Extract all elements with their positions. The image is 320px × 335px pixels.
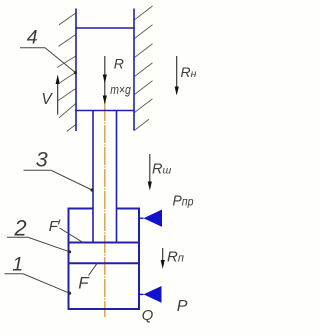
pressure arrow Pпр [139,210,162,227]
cylinder 1 left wall [68,208,70,311]
rod 3 left edge [92,111,94,243]
cylinder 1 right wall [138,208,140,311]
svg-text:Rш: Rш [152,161,171,177]
cylinder 4 top line [75,27,135,29]
wall hatching left [57,13,76,131]
svg-text:2: 2 [13,215,26,240]
cylinder 4 left wall [75,9,77,132]
reaction arrow Rн [175,56,179,96]
leader for F [89,263,98,276]
svg-text:F: F [49,218,59,235]
pressure arrow P [139,286,162,303]
leader for label 2 [7,237,70,252]
weight arrow m×g [103,96,107,105]
piston reaction arrow Rп [161,248,165,269]
leader for F' [60,228,83,242]
leader for label 1 [5,274,70,293]
cylinder 1 top left segment [68,208,93,210]
leader dot 1 [68,292,71,295]
svg-text:m×g: m×g [110,83,131,97]
leader for label 4 [20,48,76,73]
leader dot 3 [90,188,93,191]
svg-text:R: R [114,56,124,72]
rod reaction arrow Rш [148,154,152,191]
svg-text:F: F [78,274,90,293]
cylinder 4 right wall [133,9,135,131]
svg-text:4: 4 [27,26,38,48]
velocity arrow V [56,75,60,115]
piston 2 bottom face [68,262,140,264]
cylinder 1 top right segment [117,208,140,210]
cylinder 1 bottom [68,308,141,310]
svg-text:1: 1 [12,254,23,276]
svg-text:Q: Q [142,307,154,324]
leader dot 4 [74,71,77,74]
piston of cylinder 4 [75,110,135,112]
leader for label 3 [24,170,93,190]
svg-text:V: V [41,91,53,108]
wall hatching right [134,6,152,131]
leader dot 2 [68,250,71,253]
piston 2 top face [68,242,140,244]
force arrow R [103,56,107,103]
centerline [104,103,106,317]
svg-text:P: P [177,298,188,315]
prime mark of F' [58,220,60,225]
rod 3 right edge [116,111,118,243]
svg-text:3: 3 [36,147,48,171]
